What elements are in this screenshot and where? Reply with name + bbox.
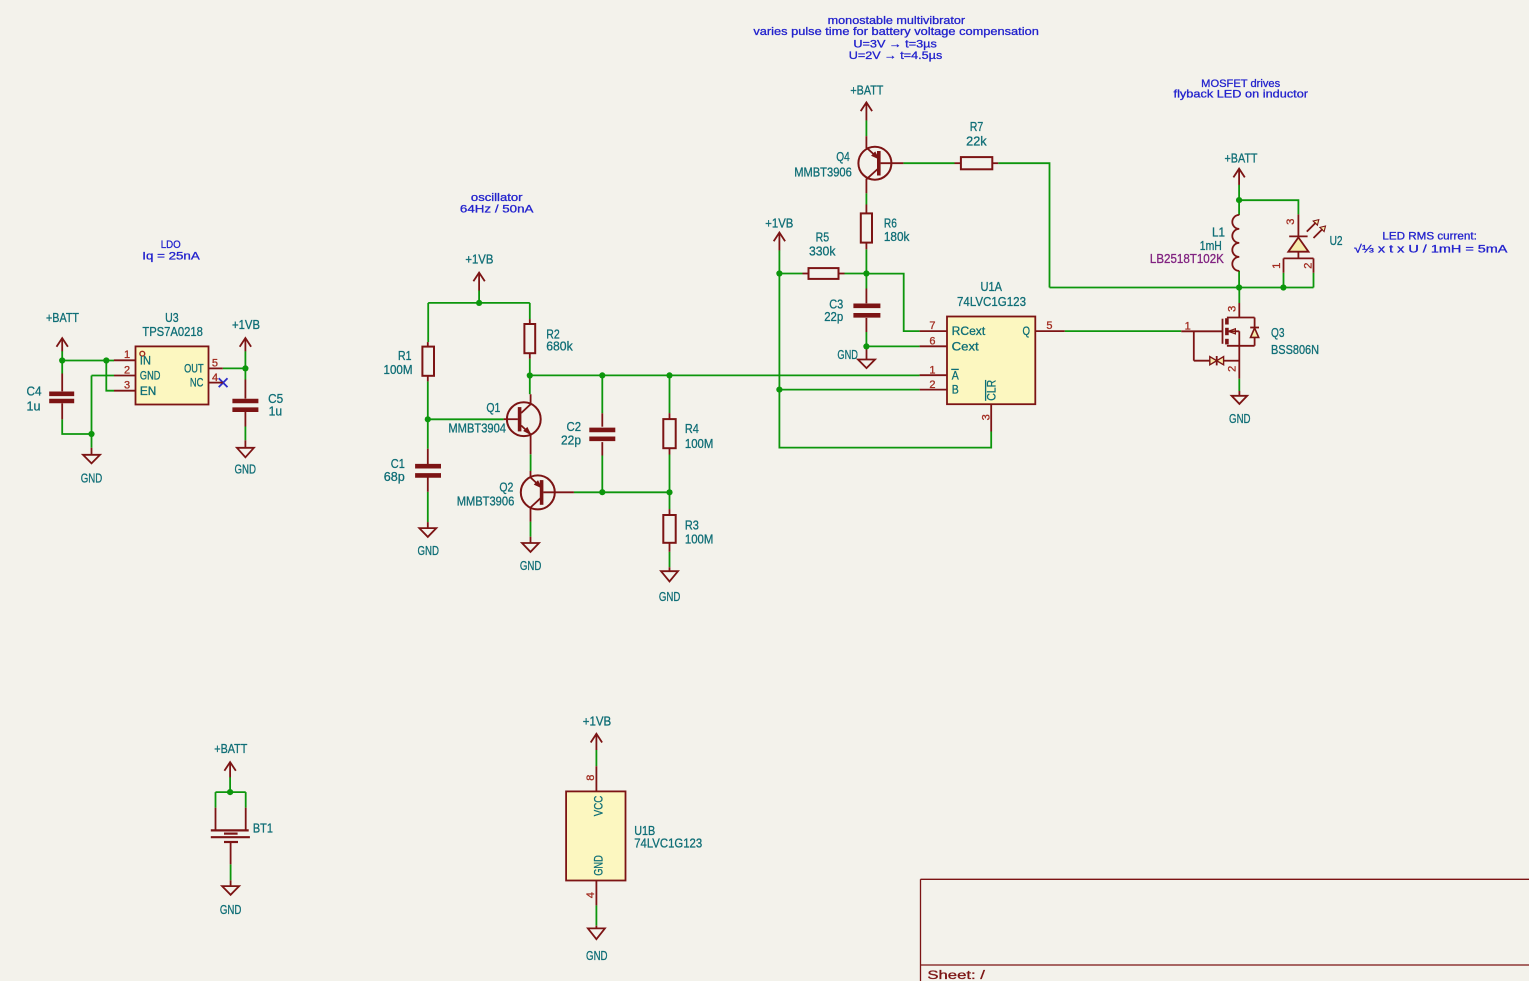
svg-text:U=3V → t=3µs: U=3V → t=3µs: [853, 39, 937, 51]
svg-text:74LVC1G123: 74LVC1G123: [634, 836, 702, 851]
svg-text:330k: 330k: [809, 243, 836, 258]
svg-text:GND: GND: [1229, 411, 1251, 426]
svg-text:U3: U3: [165, 310, 179, 325]
svg-text:TPS7A0218: TPS7A0218: [142, 324, 203, 339]
svg-text:BSS806N: BSS806N: [1271, 342, 1319, 357]
svg-text:Q3: Q3: [1271, 325, 1285, 340]
svg-text:22p: 22p: [824, 309, 843, 324]
svg-text:64Hz / 50nA: 64Hz / 50nA: [460, 203, 534, 215]
svg-text:+1VB: +1VB: [465, 251, 493, 266]
svg-text:3: 3: [980, 414, 992, 420]
svg-text:1: 1: [124, 349, 130, 361]
svg-text:2: 2: [124, 364, 130, 376]
svg-text:oscillator: oscillator: [471, 192, 523, 204]
svg-text:U2: U2: [1330, 233, 1343, 248]
svg-text:4: 4: [585, 892, 597, 898]
svg-text:1u: 1u: [27, 399, 41, 414]
svg-text:8: 8: [585, 775, 597, 781]
svg-text:VCC: VCC: [594, 796, 606, 817]
svg-text:Cext: Cext: [952, 341, 980, 353]
svg-text:3: 3: [1285, 219, 1297, 225]
svg-text:R1: R1: [398, 348, 412, 363]
svg-text:MMBT3904: MMBT3904: [448, 421, 506, 436]
svg-text:A: A: [952, 370, 959, 382]
svg-text:22p: 22p: [561, 433, 581, 448]
svg-text:1: 1: [1271, 263, 1283, 269]
svg-text:GND: GND: [417, 543, 439, 558]
svg-text:LB2518T102K: LB2518T102K: [1150, 251, 1224, 266]
svg-text:CLR: CLR: [986, 380, 998, 401]
svg-text:+1VB: +1VB: [765, 215, 793, 230]
svg-text:5: 5: [1046, 320, 1052, 332]
svg-text:MMBT3906: MMBT3906: [457, 494, 515, 509]
svg-text:Q: Q: [1023, 326, 1031, 338]
svg-text:680k: 680k: [546, 338, 573, 353]
svg-text:2: 2: [929, 379, 935, 391]
svg-text:100M: 100M: [384, 362, 413, 377]
svg-text:180k: 180k: [884, 229, 910, 244]
svg-text:+BATT: +BATT: [1225, 150, 1258, 165]
svg-text:68p: 68p: [384, 469, 405, 484]
svg-text:BT1: BT1: [253, 821, 273, 836]
svg-text:U=2V → t=4.5µs: U=2V → t=4.5µs: [849, 50, 943, 62]
svg-text:74LVC1G123: 74LVC1G123: [957, 294, 1026, 309]
svg-text:Q4: Q4: [836, 149, 850, 164]
svg-text:GND: GND: [140, 371, 161, 383]
svg-text:22k: 22k: [966, 134, 987, 149]
svg-text:Sheet: /: Sheet: /: [927, 968, 985, 981]
svg-text:NC: NC: [190, 378, 204, 390]
svg-text:GND: GND: [659, 589, 681, 604]
svg-text:Q2: Q2: [499, 479, 513, 494]
svg-text:3: 3: [1227, 306, 1239, 312]
svg-text:R4: R4: [685, 421, 699, 436]
svg-text:+1VB: +1VB: [232, 317, 260, 332]
svg-text:6: 6: [929, 336, 935, 348]
svg-text:+1VB: +1VB: [583, 714, 612, 729]
svg-text:R7: R7: [970, 119, 984, 134]
svg-text:EN: EN: [140, 386, 157, 398]
svg-text:GND: GND: [520, 558, 542, 573]
svg-text:2: 2: [1302, 263, 1314, 269]
svg-text:U1A: U1A: [981, 279, 1003, 294]
svg-text:LED RMS current:: LED RMS current:: [1382, 231, 1477, 243]
svg-text:1u: 1u: [269, 404, 283, 419]
svg-text:OUT: OUT: [184, 364, 204, 376]
svg-text:+BATT: +BATT: [46, 310, 79, 325]
svg-text:GND: GND: [586, 948, 608, 963]
svg-text:GND: GND: [220, 902, 242, 917]
svg-text:GND: GND: [234, 462, 256, 477]
svg-text:LDO: LDO: [161, 239, 181, 251]
svg-text:GND: GND: [594, 855, 606, 876]
svg-text:1: 1: [1185, 320, 1191, 332]
svg-text:flyback LED on inductor: flyback LED on inductor: [1174, 89, 1309, 101]
svg-text:3: 3: [124, 380, 130, 392]
svg-text:√⅓ x t x U / 1mH = 5mA: √⅓ x t x U / 1mH = 5mA: [1354, 243, 1508, 255]
svg-text:IN: IN: [140, 356, 151, 368]
svg-text:GND: GND: [837, 347, 858, 362]
svg-text:1: 1: [929, 364, 935, 376]
svg-text:100M: 100M: [685, 436, 714, 451]
svg-text:R3: R3: [685, 517, 699, 532]
svg-text:Q1: Q1: [486, 400, 500, 415]
svg-text:+BATT: +BATT: [850, 83, 883, 98]
svg-text:+BATT: +BATT: [214, 741, 247, 756]
svg-text:100M: 100M: [685, 532, 714, 547]
svg-text:MMBT3906: MMBT3906: [794, 164, 852, 179]
svg-text:7: 7: [929, 320, 935, 332]
svg-text:varies pulse time for battery: varies pulse time for battery voltage co…: [753, 26, 1039, 38]
svg-text:RCext: RCext: [952, 326, 986, 338]
svg-text:GND: GND: [81, 470, 103, 485]
svg-text:2: 2: [1227, 366, 1239, 372]
svg-text:C4: C4: [27, 384, 42, 399]
svg-text:Iq = 25nA: Iq = 25nA: [142, 251, 200, 263]
svg-text:4: 4: [212, 372, 218, 384]
svg-text:B: B: [952, 385, 959, 397]
svg-text:5: 5: [212, 358, 218, 370]
